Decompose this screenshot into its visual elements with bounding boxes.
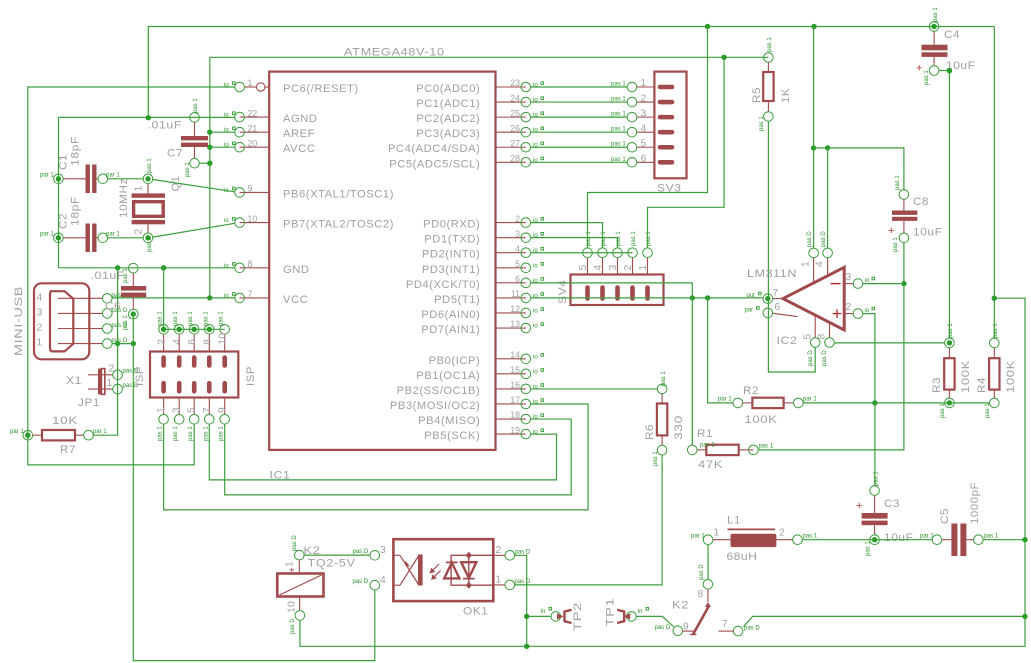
ISP pin 10 (top) (218, 311, 230, 366)
wire net VCC row (USB pin4 to IC pin7) (112, 297, 235, 299)
svg-text:.01uF: .01uF (91, 270, 126, 282)
OK1 pin 2 (493, 545, 531, 560)
wire K2 pin7 to right rail (744, 616, 1026, 626)
resistor R1 47K (688, 428, 774, 471)
svg-text:MINI-USB: MINI-USB (13, 286, 25, 356)
ISP pin 1 (bottom) (156, 383, 168, 441)
wire IC2 pin2 to R2/R3 node (863, 314, 875, 403)
capacitor C3 10uF (856, 471, 914, 556)
wire OK1 pin2 to TP2 node (515, 555, 527, 646)
wire TP1 to K2 pin9 (636, 616, 674, 626)
wire K2 coil top to OK1 pin3 (304, 554, 370, 556)
svg-text:7: 7 (202, 407, 213, 413)
OK1 triac (444, 552, 493, 589)
wire SV4 pin1 to VCC rail (648, 57, 725, 248)
capacitor C4 10uF (916, 7, 976, 85)
svg-text:6: 6 (775, 302, 781, 313)
svg-text:6: 6 (641, 154, 647, 165)
IC1 pin 18 PB4(MISO) (418, 410, 543, 427)
svg-text:pas 1: pas 1 (123, 315, 129, 330)
svg-text:3: 3 (515, 229, 520, 239)
svg-text:pas 1: pas 1 (173, 426, 179, 441)
svg-text:8: 8 (698, 589, 704, 600)
IC1 pin 14 PB0(ICP) (429, 350, 544, 367)
svg-text:PB5(SCK): PB5(SCK) (424, 430, 480, 442)
svg-text:3: 3 (172, 407, 183, 413)
svg-text:17: 17 (510, 395, 520, 405)
svg-text:1: 1 (37, 338, 43, 349)
jumper JP1 (78, 364, 139, 410)
svg-text:10: 10 (218, 333, 229, 345)
resistor R6 330 (644, 371, 685, 466)
svg-text:pas 1: pas 1 (123, 268, 129, 283)
svg-text:par 1: par 1 (106, 232, 120, 238)
wire C6 bottom rail to OK1 pin4 (133, 314, 374, 660)
svg-text:PB2(SS/OC1B): PB2(SS/OC1B) (397, 385, 481, 397)
resistor R3 100K (931, 323, 972, 418)
svg-text:7: 7 (248, 289, 253, 299)
svg-text:io: io (533, 308, 538, 314)
svg-text:47K: 47K (698, 459, 723, 471)
svg-text:10: 10 (287, 601, 298, 613)
svg-text:pas D: pas D (699, 564, 705, 580)
svg-text:PB6(XTAL1/TOSC1): PB6(XTAL1/TOSC1) (283, 188, 394, 200)
junction AREF tap (207, 130, 212, 135)
connector SV3 pin 1 (611, 78, 672, 92)
resistor R5 1K (751, 37, 792, 131)
svg-text:pas 1: pas 1 (759, 444, 774, 450)
IC2 pin 3 (-) (844, 272, 874, 289)
svg-text:io: io (533, 143, 538, 149)
svg-text:.01uF: .01uF (148, 120, 183, 132)
wire output net PD5/T1 to IC2 pin7 (531, 297, 763, 299)
svg-text:pas 1: pas 1 (924, 70, 930, 85)
junction GND / ISP pin2 riser (161, 265, 166, 270)
svg-text:14: 14 (510, 350, 520, 360)
wire ISP top ground bus (164, 268, 225, 330)
wire C7 bottom to VCC trunk (199, 162, 210, 164)
svg-text:PC4(ADC4/SDA): PC4(ADC4/SDA) (388, 143, 480, 155)
svg-text:25: 25 (510, 108, 520, 118)
svg-text:13: 13 (510, 319, 520, 329)
svg-text:1: 1 (496, 575, 502, 586)
svg-text:pas 1: pas 1 (173, 311, 179, 326)
svg-text:JP1: JP1 (78, 397, 100, 409)
svg-text:2: 2 (109, 364, 115, 375)
inductor L1 68uH (691, 515, 818, 564)
svg-text:pas D: pas D (353, 579, 369, 585)
svg-text:PC3(ADC3): PC3(ADC3) (416, 128, 480, 140)
X1 pin 3 (37, 307, 128, 318)
svg-text:4: 4 (815, 261, 826, 267)
junction C7/VCC (207, 161, 212, 166)
svg-text:pas 1: pas 1 (948, 323, 954, 338)
IC1 pin 25 PC2(ADC2) (416, 108, 543, 125)
svg-text:PD0(RXD): PD0(RXD) (423, 219, 480, 231)
connector SV3 pin 3 (611, 108, 672, 122)
wire VCC vertical trunk (209, 57, 211, 298)
svg-text:+: + (287, 567, 297, 572)
svg-text:1: 1 (134, 185, 145, 191)
junction right rail branch (992, 296, 997, 301)
ISP pin 3 (bottom) (172, 383, 184, 441)
svg-text:io: io (533, 324, 538, 330)
svg-text:VCC: VCC (283, 294, 308, 306)
wire ISP pin7 to PB5 (SCK) (209, 424, 556, 480)
svg-text:par: par (745, 308, 754, 314)
wire C4 bottom to R3 top (939, 71, 950, 339)
svg-text:1: 1 (638, 264, 649, 270)
junction VCC row (207, 295, 212, 300)
svg-text:io: io (224, 128, 229, 134)
svg-text:io: io (533, 369, 538, 375)
svg-text:330: 330 (673, 415, 685, 440)
wire output node down to R2 (708, 298, 733, 403)
IC1 pin 13 PD7(AIN1) (421, 319, 543, 336)
svg-text:PC6(/RESET): PC6(/RESET) (283, 83, 359, 95)
svg-text:C6: C6 (105, 301, 121, 313)
svg-text:5: 5 (187, 407, 198, 413)
ISP pin 9 (bottom) (217, 383, 229, 441)
svg-text:R4: R4 (976, 377, 988, 393)
svg-text:par 1: par 1 (40, 173, 54, 179)
svg-text:pas D: pas D (822, 350, 828, 366)
wire net PC2 from IC1 pin 25 to SV3 pin 3 (531, 116, 628, 118)
svg-text:+: + (888, 225, 894, 237)
svg-text:20: 20 (248, 138, 258, 148)
svg-text:100K: 100K (960, 360, 972, 393)
wire USB pin1 net to C6/JP1 (112, 343, 133, 345)
svg-text:pas 1: pas 1 (700, 443, 715, 449)
OK1 light arrows (430, 564, 441, 580)
svg-text:TP2: TP2 (572, 602, 584, 631)
IC1 pin 10 PB7(XTAL2/TOSC2) (224, 214, 394, 231)
svg-text:10: 10 (248, 214, 258, 224)
svg-text:19: 19 (510, 425, 520, 435)
svg-text:L1: L1 (727, 515, 741, 527)
wire R2/R3 node down to C3 (874, 403, 876, 486)
IC1 pin 17 PB3(MOSI/OC2) (390, 395, 544, 412)
svg-text:PC5(ADC5/SCL): PC5(ADC5/SCL) (389, 158, 480, 170)
junction bottom rail TP2 (524, 644, 529, 649)
crystal Q1 10MHz (118, 158, 182, 252)
svg-text:9: 9 (248, 184, 253, 194)
connector SV3 pin 2 (611, 93, 672, 107)
svg-text:2: 2 (623, 264, 634, 270)
svg-text:PD2(INT0): PD2(INT0) (422, 249, 480, 261)
svg-text:pas 1: pas 1 (203, 426, 209, 441)
svg-text:pas 1: pas 1 (661, 371, 667, 386)
junction top rail / SV4 pin5 riser (705, 24, 710, 29)
ISP pin 8 (top) (202, 311, 214, 366)
svg-text:R5: R5 (751, 87, 763, 103)
capacitor C7 .01uF (148, 98, 209, 177)
svg-text:1: 1 (641, 78, 647, 89)
svg-text:pas D: pas D (808, 350, 814, 366)
OK1 pin 4 (353, 575, 387, 590)
svg-text:24: 24 (510, 93, 520, 103)
svg-text:2: 2 (846, 302, 852, 313)
svg-text:ISP: ISP (245, 366, 257, 386)
wire net PC3 from IC1 pin 26 to SV3 pin 4 (531, 131, 628, 133)
IC1 pin 2 PD0(RXD) (423, 214, 544, 231)
junction AVCC tap (207, 145, 212, 150)
ISP pin 6 (top) (187, 311, 199, 366)
wire C2 to crystal pin2 (108, 237, 144, 239)
svg-text:pas D: pas D (821, 231, 827, 247)
svg-text:+: + (916, 63, 922, 75)
resistor R4 100K (976, 323, 1017, 418)
svg-text:15: 15 (510, 365, 520, 375)
OK1 pin 1 (493, 575, 531, 590)
svg-text:io: io (224, 143, 229, 149)
wire net PC1 from IC1 pin 24 to SV3 pin 2 (531, 101, 628, 103)
svg-text:pas 1: pas 1 (993, 323, 999, 338)
svg-text:1: 1 (714, 528, 720, 539)
svg-text:io: io (865, 278, 870, 284)
connector SV4 body (557, 275, 664, 306)
IC1 pin 19 PB5(SCK) (424, 425, 543, 442)
svg-text:pas D: pas D (807, 231, 813, 247)
relay K2 contact common pin 8 (690, 564, 713, 635)
svg-text:PD1(TXD): PD1(TXD) (424, 234, 480, 246)
wire LM311 pins1/4 supply net (813, 27, 815, 249)
svg-text:pas D: pas D (515, 549, 531, 555)
svg-text:1: 1 (248, 78, 253, 88)
svg-text:pas D: pas D (744, 625, 760, 631)
IC1 pin 24 PC1(ADC1) (416, 93, 543, 110)
svg-text:2: 2 (641, 93, 647, 104)
svg-text:PD7(AIN1): PD7(AIN1) (421, 324, 480, 336)
svg-text:par 1: par 1 (40, 232, 54, 238)
svg-text:X1: X1 (66, 375, 82, 387)
svg-text:par 1: par 1 (93, 429, 107, 435)
IC1 pin 4 PD2(INT0) (422, 244, 544, 261)
svg-text:26: 26 (510, 123, 520, 133)
IC1 pin 20 AVCC (224, 138, 315, 155)
IC2 pin 5 (803, 316, 821, 366)
wire right rail (300, 298, 1025, 646)
junction ISP bus (161, 327, 166, 332)
IC2 pin 4 (815, 231, 833, 278)
X1 pin 4 (37, 292, 128, 303)
svg-text:2: 2 (779, 528, 785, 539)
svg-text:8: 8 (817, 333, 828, 339)
IC1 pin 26 PC3(ADC3) (416, 123, 543, 140)
svg-text:C8: C8 (913, 196, 929, 208)
svg-text:100K: 100K (745, 414, 778, 426)
junction GND / USB-JP1 riser (115, 265, 120, 270)
IC1 pin 28 PC5(ADC5/SCL) (389, 154, 543, 171)
op-amp IC2 LM311N triangle (747, 267, 844, 347)
svg-text:PB0(ICP): PB0(ICP) (429, 355, 481, 367)
IC1 pin 5 PD3(INT1) (422, 259, 544, 276)
connector SV3 pin 6 (611, 154, 672, 168)
svg-text:PD3(INT1): PD3(INT1) (422, 264, 480, 276)
relay K2 coil TQ2-5V (277, 535, 355, 634)
wire AVCC (210, 146, 235, 148)
connector SV4 pin 4 (593, 231, 607, 299)
svg-text:1: 1 (156, 407, 167, 413)
wire LM311 pin3 stub (863, 283, 904, 285)
X1 pin 1 (37, 338, 128, 349)
svg-text:io: io (533, 248, 538, 254)
OK1 pin 3 (353, 545, 387, 560)
svg-text:10MHz: 10MHz (118, 178, 130, 218)
svg-text:pas 1: pas 1 (985, 403, 991, 418)
wire ISP pin9 to PB4 (MISO) (225, 419, 572, 495)
connector SV3 pin 5 (611, 138, 672, 152)
IC1 pin 1 PC6(/RESET) (224, 78, 359, 95)
svg-text:pas 1: pas 1 (185, 162, 191, 177)
test point TP2 (527, 602, 584, 631)
wire PD4 to output node (531, 283, 693, 298)
svg-text:9: 9 (683, 622, 689, 633)
wire SV4 pin5 to top rail (588, 27, 708, 249)
svg-text:In: In (541, 609, 546, 615)
svg-text:+: + (856, 500, 862, 512)
wire AREF (210, 131, 235, 133)
IC IC1 ATMEGA48V-10 microcontroller body (269, 47, 495, 482)
connector SV4 pin 1 (638, 231, 652, 299)
svg-text:28: 28 (510, 154, 520, 164)
connector SV4 pin 3 (608, 231, 622, 299)
svg-text:pas 1: pas 1 (759, 116, 765, 131)
svg-text:6: 6 (187, 339, 198, 345)
svg-text:10K: 10K (52, 415, 78, 427)
svg-text:K2: K2 (672, 600, 689, 612)
svg-text:In: In (638, 609, 643, 615)
svg-text:pas 1: pas 1 (147, 237, 153, 252)
wire net VCC rail to R5 (210, 56, 769, 58)
relay K2 contact pin 7 (719, 619, 761, 636)
junction ISP bus (177, 327, 182, 332)
optocoupler OK1 body (393, 539, 493, 617)
svg-text:ISP: ISP (134, 366, 146, 386)
svg-text:27: 27 (510, 138, 520, 148)
wire C5 right to right rail (983, 539, 1025, 541)
ISP pin 4 (top) (172, 311, 184, 366)
IC1 pin 9 PB6(XTAL1/TOSC1) (224, 184, 394, 201)
svg-text:5: 5 (578, 264, 589, 270)
svg-text:PC0(ADC0): PC0(ADC0) (416, 83, 480, 95)
svg-text:pas D: pas D (515, 579, 531, 585)
svg-text:PC1(ADC1): PC1(ADC1) (416, 98, 480, 110)
connector SV3 body (654, 72, 686, 195)
wire SV4 pin4 to PD0 (531, 223, 603, 248)
wire riser GND to JP1/R7 (93, 268, 117, 435)
resistor R7 10K (10, 415, 107, 456)
wire R5 bottom to LM311 out / pins 6,5 (768, 121, 815, 372)
wire net RESET (PC6) (28, 87, 235, 465)
svg-text:pas D: pas D (290, 618, 296, 634)
svg-text:io: io (533, 263, 538, 269)
IC1 pin 7 VCC (224, 289, 308, 306)
svg-text:4: 4 (515, 244, 520, 254)
svg-text:8: 8 (248, 259, 253, 269)
svg-text:1: 1 (285, 561, 296, 567)
svg-text:11: 11 (511, 289, 520, 299)
svg-text:pas 1: pas 1 (203, 311, 209, 326)
svg-text:pas D: pas D (353, 549, 369, 555)
ISP pin 5 (bottom) (187, 383, 199, 441)
svg-text:1: 1 (801, 261, 812, 267)
svg-text:16: 16 (510, 380, 520, 390)
svg-text:PD6(AIN0): PD6(AIN0) (421, 309, 480, 321)
capacitor C2 18pF (40, 196, 120, 252)
IC2 pin 8 (817, 323, 835, 366)
wire crystal pin2 to IC pin10 (XTAL2) (153, 223, 235, 237)
svg-text:3: 3 (641, 108, 647, 119)
svg-text:pas 1: pas 1 (874, 471, 880, 486)
svg-text:PD4(XCK/T0): PD4(XCK/T0) (406, 279, 480, 291)
svg-text:pas 1: pas 1 (631, 231, 637, 246)
IC2 pin 7 output (747, 288, 784, 304)
svg-text:23: 23 (510, 78, 520, 88)
svg-text:AGND: AGND (283, 113, 318, 125)
svg-text:pas 1: pas 1 (933, 7, 939, 22)
svg-text:10uF: 10uF (913, 227, 943, 239)
wire ISP pin1 to PB3 (MOSI) (164, 404, 588, 510)
ISP pin 2 (top) (157, 311, 169, 366)
IC2 pin 2 (+) (844, 302, 874, 319)
connector SV4 pin 5 (578, 231, 592, 299)
svg-text:C7: C7 (167, 148, 183, 160)
wire top rail right corner to R4 (993, 27, 995, 339)
ISP pin 7 (bottom) (202, 383, 214, 441)
IC2 pin 1 (801, 231, 819, 285)
svg-text:PC2(ADC2): PC2(ADC2) (416, 113, 480, 125)
svg-text:pas 1: pas 1 (803, 534, 818, 540)
svg-text:R7: R7 (60, 444, 76, 456)
capacitor C5 1000pF (920, 482, 999, 556)
svg-text:R2: R2 (743, 385, 759, 397)
svg-text:12: 12 (510, 304, 520, 314)
junction TP2 node (524, 614, 529, 619)
svg-text:C4: C4 (944, 29, 960, 41)
IC1 pin 12 PD6(AIN0) (421, 304, 543, 321)
svg-text:5: 5 (803, 333, 814, 339)
svg-text:par 1: par 1 (106, 173, 120, 179)
svg-text:C3: C3 (884, 498, 900, 510)
svg-text:pas 1: pas 1 (188, 426, 194, 441)
wire net GND top rail (148, 27, 994, 119)
svg-text:C5: C5 (939, 508, 951, 524)
svg-text:PB4(MISO): PB4(MISO) (418, 415, 480, 427)
svg-text:22: 22 (248, 108, 258, 118)
svg-text:R6: R6 (644, 424, 656, 440)
X1 pin 2 (37, 323, 128, 334)
capacitor C8 10uF (888, 175, 943, 252)
svg-text:3: 3 (608, 264, 619, 270)
wire net PC4 from IC1 pin 27 to SV3 pin 5 (531, 146, 628, 148)
junction VCC rail / SV4 pin1 riser (721, 55, 726, 60)
svg-text:10uF: 10uF (884, 532, 914, 544)
wire output node down to R1 (691, 298, 693, 445)
IC1 pin 22 AGND (224, 108, 318, 125)
resistor R2 100K (718, 385, 817, 426)
svg-text:par 1: par 1 (718, 397, 732, 403)
wire L1 to C3 node to C5 (802, 539, 932, 541)
junction RESET / R7 pin (25, 433, 30, 438)
svg-text:C2: C2 (58, 213, 70, 229)
svg-text:21: 21 (248, 123, 258, 133)
svg-text:par 1: par 1 (920, 534, 934, 540)
svg-text:2: 2 (515, 214, 520, 224)
wire net PC5 from IC1 pin 28 to SV3 pin 6 (531, 161, 628, 163)
wire C1 to crystal pin1 (108, 178, 144, 180)
svg-text:PB3(MOSI/OC2): PB3(MOSI/OC2) (390, 400, 480, 412)
